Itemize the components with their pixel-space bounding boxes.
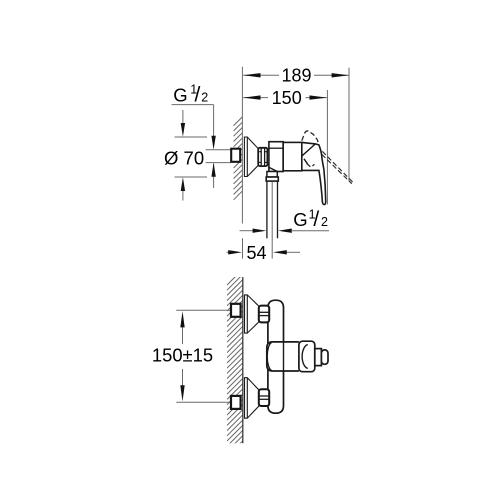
svg-text:Ø 70: Ø 70 xyxy=(164,147,204,168)
leader line G1/2 xyxy=(172,105,216,188)
wall hatching (top view) xyxy=(234,117,243,200)
svg-text:150: 150 xyxy=(272,88,302,108)
escutcheon cone (top view) xyxy=(244,137,258,177)
union nut (top view) xyxy=(258,148,267,166)
svg-text:150±15: 150±15 xyxy=(152,344,213,365)
cartridge cylinder (front view) xyxy=(267,342,299,371)
svg-text:/: / xyxy=(195,83,201,106)
wall nipple square (top view) xyxy=(231,149,240,162)
svg-text:/: / xyxy=(313,208,319,231)
dimension 150±15 xyxy=(152,310,231,402)
extension lines G1/2 nipple xyxy=(206,149,231,151)
dimension 189 xyxy=(243,66,349,86)
upper union nut (front view) xyxy=(259,306,269,323)
svg-text:54: 54 xyxy=(246,243,266,263)
svg-text:2: 2 xyxy=(201,90,208,104)
lever handle (top view, solid) xyxy=(302,142,326,204)
extension line for 189 xyxy=(348,68,350,182)
spacer ring (top view) xyxy=(267,149,269,165)
upper wall nipple square (front view) xyxy=(231,304,241,317)
lower escutcheon cone (front view) xyxy=(245,378,259,419)
dimension 150 (top view) xyxy=(243,88,327,108)
dimension 54 xyxy=(227,238,301,262)
wall line (front view) xyxy=(242,277,244,443)
lower wall nipple square (front view) xyxy=(231,396,241,409)
dashed swing range lines xyxy=(322,151,353,183)
handle grip section (front view) xyxy=(315,349,322,366)
label G 1/2 (wall union thread) xyxy=(173,83,208,107)
svg-text:G: G xyxy=(293,209,307,230)
valve body block (top view) xyxy=(269,142,283,172)
lower union nut (front view) xyxy=(259,389,269,406)
dimension Ø70 xyxy=(164,110,207,201)
svg-text:2: 2 xyxy=(321,215,328,229)
dashed handle raised position xyxy=(302,131,319,167)
shower hose pipe (top view) xyxy=(267,181,278,238)
svg-text:189: 189 xyxy=(281,66,311,86)
wall line (top view) xyxy=(241,67,243,224)
handle dome cap (front view) xyxy=(299,341,315,372)
outlet elbow (top view) xyxy=(266,167,278,181)
upper escutcheon cone (front view) xyxy=(245,295,259,333)
extension line for 150 xyxy=(326,90,328,205)
body capsule (front view) xyxy=(268,300,284,413)
pipe centre line xyxy=(271,182,273,259)
cartridge sleeve (top view) xyxy=(283,142,302,170)
G1/2 outlet callout xyxy=(240,207,329,233)
svg-text:G: G xyxy=(173,84,187,105)
handle end nub (front view) xyxy=(321,350,328,364)
